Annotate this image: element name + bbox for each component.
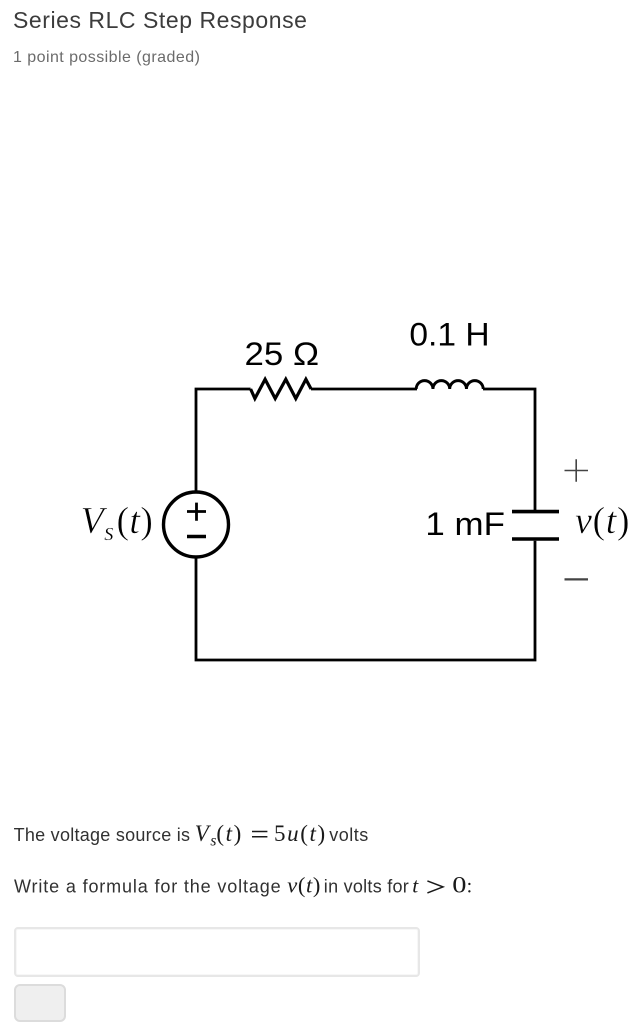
inductor L1 [416, 381, 483, 389]
wire between resistor and inductor [311, 388, 417, 391]
circuit schematic [0, 300, 639, 700]
svg-text:volts: volts [329, 825, 368, 845]
svg-text:25 Ω: 25 Ω [245, 336, 320, 372]
wire top-right corner and right upper segment [483, 389, 535, 510]
voltage source plus sign [187, 503, 206, 521]
answer input box [14, 927, 420, 977]
voltage source VS circle [164, 492, 229, 557]
svg-text:5u(t): 5u(t) [274, 821, 327, 846]
wire top-left corner and left upper segment [196, 389, 251, 492]
svg-text::: : [467, 875, 473, 897]
voltage source minus sign [187, 535, 206, 538]
svg-text:0.1 H: 0.1 H [409, 317, 489, 353]
svg-text:v(t): v(t) [575, 500, 630, 542]
resistor R1 [251, 379, 312, 398]
svg-text:in volts for: in volts for [324, 876, 409, 896]
svg-text:0: 0 [452, 872, 466, 897]
svg-text:The voltage source is: The voltage source is [14, 825, 190, 845]
title [13, 7, 307, 34]
svg-text:Vs(t): Vs(t) [195, 821, 243, 850]
capacitor C1 top plate [512, 510, 559, 514]
check button [14, 984, 66, 1022]
wire right lower, bottom, left lower [196, 541, 535, 660]
capacitor C1 bottom plate [512, 537, 559, 541]
math greater-than sign [427, 881, 443, 893]
svg-text:1 mF: 1 mF [425, 506, 505, 542]
svg-text:v(t): v(t) [287, 872, 321, 897]
node plus sign (capacitor top polarity) [565, 459, 589, 482]
svg-text:t: t [412, 873, 419, 897]
svg-text:Write a formula for the voltag: Write a formula for the voltage [14, 876, 281, 896]
subtitle [13, 49, 200, 67]
math equals sign [252, 832, 267, 837]
problem statement line 2 [0, 868, 639, 908]
svg-text:Vs(t): Vs(t) [81, 500, 154, 546]
node minus sign (capacitor bottom polarity) [565, 578, 589, 580]
problem statement line 1 [0, 815, 639, 855]
